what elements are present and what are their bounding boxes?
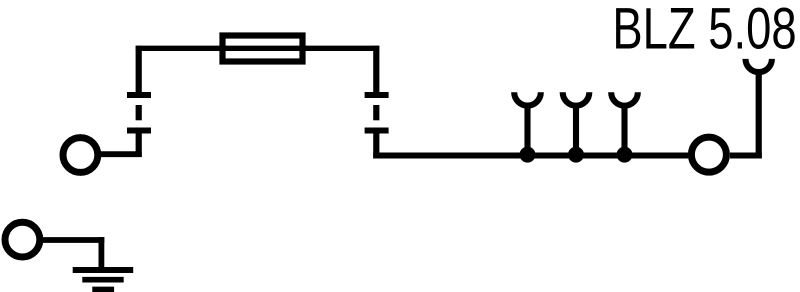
fuse F1	[223, 36, 303, 62]
wire: right riser (disconnect upper lead from top rail)	[373, 46, 379, 97]
junction dot 3	[617, 147, 633, 163]
junction dot 2	[568, 147, 584, 163]
disconnect link left: lower bar	[127, 128, 151, 134]
disconnect link right: middle dash	[373, 105, 379, 120]
wire: ground terminal to ground riser	[43, 237, 104, 243]
disconnect link right: lower bar	[365, 128, 389, 134]
fork contact tap 3: arc	[611, 92, 638, 105]
wire: left riser (disconnect upper lead to top rail)	[136, 46, 142, 97]
fork contact tap 2: arc	[563, 92, 590, 105]
fork contact tap 1: arc	[514, 92, 541, 105]
wire: output rail to right circle	[373, 153, 688, 159]
wire: top rail	[136, 46, 379, 51]
fork contact tap 2: stem	[573, 104, 579, 156]
ground symbol: bar 3 (bottom)	[92, 287, 114, 292]
disconnect link left: middle dash	[136, 105, 142, 120]
wire: riser to plug fork (BLZ 5.08 connector pin)	[756, 71, 762, 159]
wire: right circle to riser corner	[730, 153, 762, 159]
wire: ground riser	[99, 237, 105, 270]
fork contact BLZ plug: arc	[746, 59, 772, 72]
ground symbol: bar 1 (top)	[73, 267, 134, 273]
junction dot 1	[520, 147, 536, 163]
disconnect link right: upper bar	[365, 92, 389, 98]
terminal circle X1 (left input)	[63, 138, 98, 173]
wire: left circle to left disconnect corner	[101, 151, 142, 157]
terminal circle X3 (ground terminal)	[5, 222, 40, 257]
fork contact tap 3: stem	[621, 104, 627, 156]
wire: right riser (disconnect lower lead to output rail)	[373, 129, 379, 158]
svg-text:BLZ 5.08: BLZ 5.08	[612, 0, 796, 62]
terminal circle X2 (right output)	[691, 137, 726, 172]
ground symbol: bar 2 (middle)	[82, 277, 123, 283]
disconnect link left: upper bar	[127, 92, 151, 98]
wire: left riser (disconnect lower lead)	[136, 129, 142, 157]
fork contact tap 1: stem	[524, 104, 530, 156]
